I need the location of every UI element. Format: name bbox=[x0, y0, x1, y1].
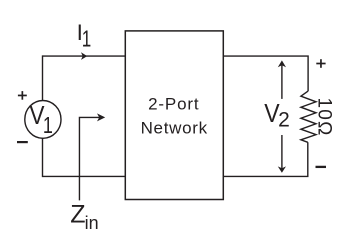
svg-text:2: 2 bbox=[278, 109, 290, 132]
svg-text:1: 1 bbox=[82, 26, 92, 52]
svg-text:10Ω: 10Ω bbox=[314, 98, 335, 137]
wire bottom-left (V1 bottom to network) bbox=[43, 138, 126, 177]
voltage arrow V2 (down) bbox=[278, 135, 286, 173]
voltage source V1 bbox=[25, 101, 61, 139]
2-port network box bbox=[125, 31, 223, 200]
current arrow I1 bbox=[81, 52, 87, 60]
label V2 bbox=[264, 98, 289, 132]
resistor R (10 ohm) bbox=[301, 91, 316, 142]
minus sign (V2 polarity) bbox=[316, 166, 327, 168]
minus sign (V1 polarity) bbox=[17, 141, 28, 143]
svg-text:in: in bbox=[85, 213, 99, 233]
plus sign (V2 polarity) bbox=[316, 59, 325, 68]
svg-text:Network: Network bbox=[141, 119, 208, 138]
plus sign (V1 polarity) bbox=[18, 91, 27, 100]
label Zin bbox=[70, 201, 98, 233]
wire bottom-right (resistor to network) bbox=[223, 142, 307, 176]
impedance arrow Zin bbox=[79, 113, 105, 200]
label I1 bbox=[77, 20, 92, 52]
label V1 bbox=[29, 100, 52, 138]
svg-text:1: 1 bbox=[43, 112, 53, 138]
svg-text:Z: Z bbox=[70, 201, 85, 229]
svg-text:2-Port: 2-Port bbox=[148, 95, 199, 114]
wire top-right (network to resistor) bbox=[223, 56, 308, 91]
wire top-left (V1 top to network) bbox=[43, 55, 126, 101]
voltage arrow V2 (up) bbox=[278, 60, 286, 99]
